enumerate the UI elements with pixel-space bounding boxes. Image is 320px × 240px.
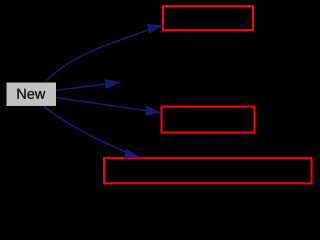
edge New to middle red box (56, 98, 161, 113)
edge New to top red box (47, 26, 164, 81)
node top red box (163, 6, 253, 30)
edge New to hidden middle node (56, 82, 121, 90)
node bottom red box (104, 158, 312, 183)
node middle red box (162, 107, 255, 133)
edge New to bottom red box (44, 107, 140, 158)
node New (7, 83, 57, 107)
